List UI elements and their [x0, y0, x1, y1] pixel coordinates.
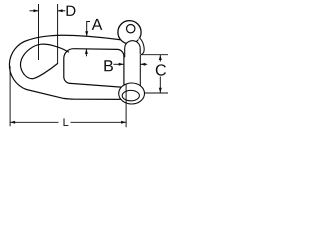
L left arrow [10, 121, 15, 124]
D left extension line [38, 4, 40, 60]
L right arrow [121, 121, 126, 124]
C bottom extension line [144, 92, 168, 94]
C up arrow [159, 55, 162, 60]
A leader [87, 22, 90, 37]
label D [67, 6, 76, 16]
L dimension line right segment [71, 121, 127, 123]
D left arrow tail [30, 10, 39, 12]
C dimension line lower segment [159, 77, 161, 93]
pin collar flare fill [138, 38, 144, 55]
shackle inner slot [64, 49, 124, 87]
pin shaft right line [139, 52, 141, 87]
pin collar flare outline [139, 38, 144, 55]
A up arrow [85, 49, 88, 54]
B right arrow [119, 63, 124, 66]
A down arrow [85, 31, 88, 36]
pin head eye hole [127, 25, 135, 33]
L dimension line left segment [10, 121, 58, 123]
D right arrow tail [58, 10, 66, 12]
pin collar dome [125, 41, 141, 58]
label B [104, 60, 113, 71]
arrowheads [10, 9, 162, 124]
L left extension line [9, 66, 11, 126]
pin head eye circle [118, 21, 141, 44]
shackle body outer contour [9, 35, 124, 99]
D right arrow [58, 9, 63, 12]
D right extension line [57, 4, 59, 64]
B right arrow tail [140, 63, 147, 65]
label C [156, 64, 166, 75]
L right extension line [125, 84, 127, 127]
label L [64, 118, 69, 126]
C top extension line [140, 54, 168, 56]
B left arrow tail [114, 63, 124, 65]
pin bottom eye outer ellipse [119, 83, 145, 104]
label A [92, 19, 103, 30]
B left arrow [140, 63, 145, 66]
A inner arrow tail [85, 49, 87, 56]
C dimension line upper segment [159, 55, 161, 62]
dimension lines [10, 4, 168, 127]
pin bottom eye hole [122, 90, 139, 100]
bow inner silhouette crescent [21, 44, 69, 79]
C down arrow [159, 88, 162, 93]
D left arrow [34, 9, 39, 12]
